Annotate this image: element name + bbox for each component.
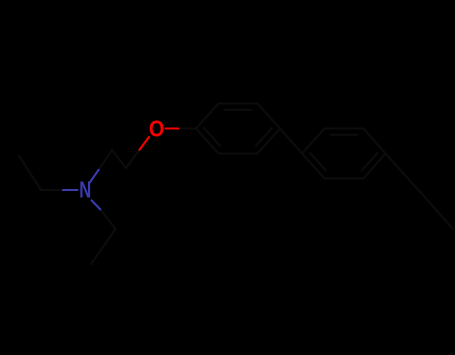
svg-text:N: N	[79, 177, 91, 203]
svg-text:O: O	[149, 116, 165, 142]
